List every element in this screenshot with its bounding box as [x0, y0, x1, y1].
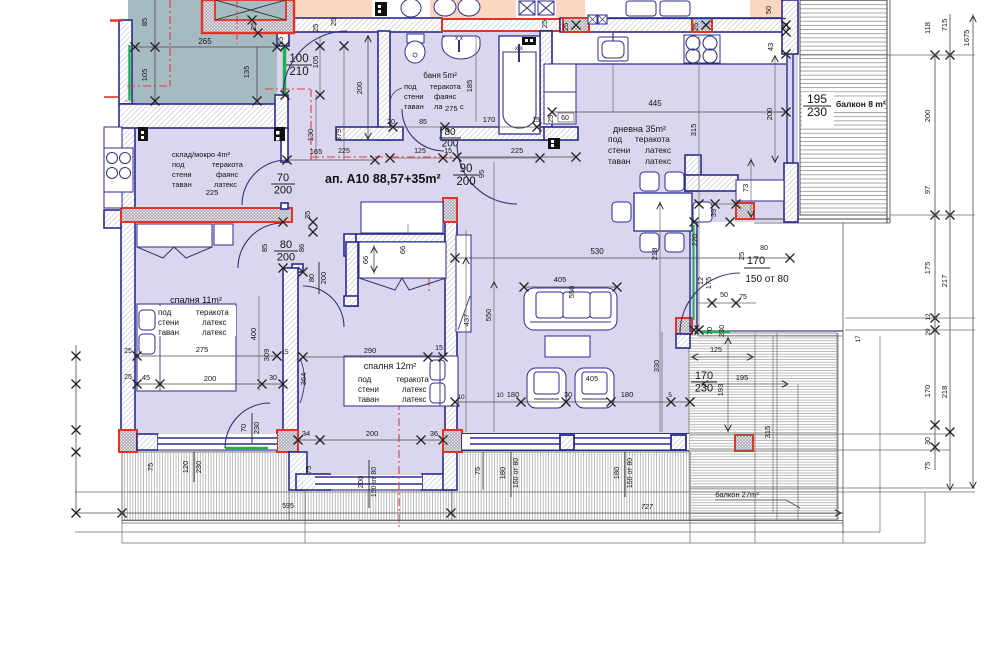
- kitchen socket: [548, 138, 560, 149]
- svg-text:80: 80: [307, 274, 316, 282]
- svg-text:теракота: теракота: [430, 82, 462, 91]
- svg-text:200: 200: [923, 110, 932, 123]
- svg-text:225: 225: [511, 146, 524, 155]
- svg-text:под: под: [158, 308, 172, 317]
- kitchen stub wall: [544, 127, 578, 140]
- svg-text:150 от 80: 150 от 80: [513, 458, 520, 488]
- svg-text:латекс: латекс: [202, 318, 227, 327]
- svg-text:спалня 11m²: спалня 11m²: [170, 295, 222, 305]
- bed bedroom11: [137, 304, 236, 391]
- entry door arc: [283, 31, 347, 95]
- coffee table: [545, 336, 590, 357]
- svg-text:25: 25: [546, 115, 555, 123]
- bedroom11 north wall red: [121, 208, 292, 222]
- svg-text:таван: таван: [158, 328, 179, 337]
- svg-text:60: 60: [561, 115, 569, 122]
- svg-text:105: 105: [311, 56, 320, 69]
- bathroom south wall: [336, 127, 403, 140]
- bay south wall pieces: [296, 474, 330, 490]
- svg-text:1675: 1675: [962, 30, 971, 47]
- svg-text:225: 225: [338, 148, 350, 155]
- svg-text:латекс: латекс: [645, 145, 672, 155]
- neighbor counter sinks: [626, 1, 656, 16]
- hall east glass green: [693, 225, 695, 320]
- svg-text:379: 379: [334, 129, 343, 142]
- svg-text:218: 218: [940, 386, 949, 399]
- svg-text:437: 437: [462, 314, 471, 327]
- svg-text:10: 10: [457, 394, 465, 401]
- storage door arc: [242, 160, 287, 205]
- neighbor sinks pair: [434, 0, 456, 16]
- terrace stub: [676, 334, 690, 348]
- svg-text:200: 200: [765, 108, 774, 121]
- neighbor washers: [519, 1, 535, 15]
- svg-text:таван: таван: [608, 156, 631, 166]
- svg-text:135: 135: [242, 66, 251, 79]
- svg-text:30: 30: [925, 437, 932, 445]
- svg-text:200: 200: [277, 251, 295, 263]
- svg-text:39: 39: [709, 209, 718, 217]
- svg-text:фаянс: фаянс: [216, 170, 239, 179]
- armchair 1: [527, 368, 566, 408]
- svg-text:180: 180: [498, 467, 507, 480]
- svg-text:230: 230: [194, 461, 203, 474]
- svg-text:100: 100: [289, 53, 308, 65]
- svg-text:170: 170: [923, 385, 932, 398]
- svg-text:35: 35: [303, 211, 312, 219]
- armchair 2: [575, 368, 614, 408]
- column red top1: [563, 18, 589, 32]
- bathroom door arc: [402, 109, 444, 151]
- svg-text:193: 193: [716, 384, 725, 397]
- east wall top: [782, 0, 798, 54]
- bottom wall stub: [137, 434, 158, 450]
- lobby bottom wall: [119, 104, 287, 128]
- vent shaft symbol: [588, 15, 597, 24]
- svg-text:таван: таван: [172, 180, 192, 189]
- svg-text:теракота: теракота: [396, 375, 429, 384]
- svg-text:85: 85: [260, 244, 269, 252]
- svg-text:75: 75: [739, 294, 747, 301]
- dining table: [634, 193, 692, 231]
- svg-text:66: 66: [398, 246, 407, 254]
- svg-text:715: 715: [940, 19, 949, 32]
- svg-text:90: 90: [460, 163, 473, 175]
- terrace door arc: [680, 273, 740, 333]
- svg-text:50: 50: [720, 292, 728, 299]
- svg-text:баня 5m²: баня 5m²: [423, 71, 457, 80]
- svg-text:200: 200: [274, 184, 292, 196]
- toilet bathroom: [407, 34, 424, 43]
- svg-text:под: под: [358, 375, 372, 384]
- balcony 8m2 decking: [800, 0, 887, 215]
- bed bedroom12: [344, 356, 458, 406]
- svg-text:195: 195: [807, 92, 827, 106]
- bedroom12 north wall piece: [344, 296, 358, 306]
- svg-text:85: 85: [140, 18, 149, 26]
- neighbor toilet: [401, 0, 421, 17]
- neighbor socket top: [375, 2, 387, 16]
- svg-text:130: 130: [306, 129, 315, 142]
- wall between closet and living: [445, 222, 457, 432]
- svg-text:86: 86: [297, 244, 306, 252]
- svg-text:x x: x x: [455, 36, 463, 42]
- svg-text:30: 30: [269, 375, 277, 382]
- svg-text:70: 70: [239, 424, 248, 432]
- svg-text:латекс: латекс: [402, 395, 427, 404]
- stair lobby fill: [128, 0, 277, 104]
- svg-text:17: 17: [855, 335, 862, 343]
- svg-text:15: 15: [444, 148, 452, 155]
- storage east wall: [281, 128, 288, 162]
- tv cabinet: [456, 235, 471, 332]
- svg-text:265: 265: [198, 37, 212, 46]
- svg-text:30: 30: [564, 390, 572, 399]
- hall-living door arc: [457, 144, 517, 204]
- svg-text:220: 220: [690, 234, 699, 247]
- svg-text:таван: таван: [404, 102, 424, 111]
- svg-text:400: 400: [249, 328, 258, 341]
- svg-text:180: 180: [612, 467, 621, 480]
- svg-text:230: 230: [252, 422, 261, 435]
- svg-text:34: 34: [302, 429, 310, 438]
- sofa: [524, 288, 617, 330]
- section line B: [265, 88, 311, 90]
- svg-text:550: 550: [567, 286, 576, 299]
- svg-text:10: 10: [496, 392, 504, 399]
- svg-text:180: 180: [621, 390, 634, 399]
- red stub top-left: [110, 19, 122, 21]
- column red hall: [443, 198, 457, 222]
- svg-text:218: 218: [650, 248, 659, 261]
- svg-text:95: 95: [477, 170, 486, 178]
- svg-text:стени: стени: [158, 318, 179, 327]
- bedroom12 door arc: [303, 286, 344, 327]
- entry west wall: [277, 0, 289, 46]
- bedroom11 entry door arc: [238, 223, 283, 268]
- bay window: [315, 476, 422, 478]
- svg-text:85: 85: [419, 119, 427, 126]
- svg-text:66: 66: [361, 256, 370, 264]
- svg-text:315: 315: [689, 124, 698, 137]
- svg-text:230: 230: [807, 105, 827, 119]
- svg-text:195: 195: [736, 373, 749, 382]
- svg-text:5: 5: [668, 392, 672, 399]
- svg-text:15: 15: [435, 345, 443, 352]
- svg-text:150 от 80: 150 от 80: [745, 274, 789, 285]
- svg-text:латекс: латекс: [402, 385, 427, 394]
- svg-text:под: под: [608, 134, 622, 144]
- svg-text:12: 12: [925, 313, 932, 321]
- svg-text:таван: таван: [358, 395, 379, 404]
- svg-text:275: 275: [196, 345, 209, 354]
- svg-text:36: 36: [430, 429, 438, 438]
- column red living sw: [443, 430, 462, 452]
- terrace door leaf green: [700, 331, 730, 334]
- svg-text:25: 25: [540, 20, 549, 28]
- covered terrace outline: [842, 223, 844, 534]
- svg-text:445: 445: [648, 99, 662, 108]
- svg-text:75: 75: [923, 462, 932, 470]
- svg-text:185: 185: [465, 80, 474, 93]
- svg-text:склад/мокро 4m²: склад/мокро 4m²: [172, 150, 231, 159]
- bay west wall: [289, 452, 307, 490]
- svg-text:43: 43: [766, 43, 775, 51]
- svg-text:под: под: [172, 160, 185, 169]
- section line C: [398, 402, 400, 527]
- neighbor apartment salmon strip: [287, 0, 784, 19]
- svg-text:25: 25: [561, 23, 570, 31]
- svg-text:25: 25: [737, 252, 746, 260]
- top wall band: [287, 18, 442, 32]
- svg-text:теракота: теракота: [635, 134, 670, 144]
- svg-text:стени: стени: [404, 92, 424, 101]
- svg-text:150 от 80: 150 от 80: [371, 467, 378, 497]
- svg-text:165: 165: [310, 147, 323, 156]
- wardrobe bedroom12: [359, 242, 446, 278]
- window post1: [560, 435, 574, 450]
- svg-text:25: 25: [124, 348, 132, 355]
- kitchen counter white: [552, 32, 786, 64]
- svg-text:73: 73: [741, 184, 750, 192]
- kitchen sink: [598, 37, 628, 61]
- cooktop: [684, 35, 720, 63]
- neighbor kitchen left: [104, 127, 122, 148]
- svg-text:120: 120: [181, 461, 190, 474]
- svg-text:80: 80: [280, 239, 292, 251]
- svg-text:170: 170: [747, 255, 765, 267]
- kitchen counter edge: [552, 63, 786, 65]
- svg-text:200: 200: [366, 429, 379, 438]
- svg-text:550: 550: [484, 309, 493, 322]
- svg-text:75: 75: [146, 463, 155, 471]
- svg-text:25: 25: [124, 374, 132, 381]
- svg-text:70: 70: [705, 327, 714, 335]
- bath socket: [522, 37, 536, 45]
- svg-text:175: 175: [923, 262, 932, 275]
- svg-text:29: 29: [925, 328, 932, 336]
- svg-text:ап. А10 88,57+35m²: ап. А10 88,57+35m²: [325, 172, 441, 186]
- bathroom sink: [442, 36, 480, 59]
- svg-text:ла: ла: [434, 102, 443, 111]
- svg-text:200: 200: [204, 374, 217, 383]
- svg-text:125: 125: [710, 347, 722, 354]
- east wall mid: [784, 163, 798, 222]
- svg-text:225: 225: [206, 188, 219, 197]
- balcony door east frame: [786, 54, 788, 163]
- bottom wall west: red column: [119, 430, 137, 452]
- svg-text:125: 125: [414, 148, 426, 155]
- window post2: [671, 435, 686, 450]
- svg-text:405: 405: [586, 374, 599, 383]
- hall closet: [361, 202, 443, 233]
- svg-text:80: 80: [760, 245, 768, 252]
- covered terrace white: [698, 223, 843, 331]
- section line A: [169, 0, 171, 86]
- svg-text:с: с: [460, 102, 464, 111]
- svg-text:балкон 8 m²: балкон 8 m²: [836, 99, 886, 109]
- bedroom11 balcony door leaf green: [225, 447, 268, 450]
- svg-text:спалня 12m²: спалня 12m²: [364, 361, 416, 371]
- bathroom east wall: [540, 31, 552, 140]
- bay east wall: [443, 452, 457, 490]
- svg-text:теракота: теракота: [196, 308, 229, 317]
- svg-text:фаянс: фаянс: [434, 92, 457, 101]
- svg-text:180: 180: [507, 390, 520, 399]
- apartment interior fill: [122, 20, 798, 490]
- svg-text:латекс: латекс: [645, 156, 672, 166]
- svg-text:118: 118: [923, 22, 932, 34]
- svg-text:75: 75: [304, 466, 313, 474]
- svg-text:15: 15: [532, 117, 540, 124]
- svg-text:217: 217: [940, 275, 949, 288]
- svg-text:15: 15: [281, 349, 289, 356]
- living windows: [470, 437, 560, 439]
- column red balcony corner: [736, 203, 754, 219]
- svg-text:25: 25: [691, 23, 700, 31]
- kitchen cabinets: [544, 64, 576, 92]
- svg-text:x x: x x: [515, 46, 523, 52]
- svg-text:150 от 80: 150 от 80: [627, 458, 634, 488]
- svg-text:727: 727: [641, 504, 654, 511]
- svg-text:315: 315: [763, 426, 772, 439]
- svg-text:25: 25: [311, 24, 320, 32]
- chairs: [640, 172, 659, 191]
- bathtub: [499, 36, 540, 134]
- window white bands: [158, 434, 277, 450]
- balcony8 border: [886, 0, 888, 223]
- closet north wall: [344, 234, 356, 256]
- svg-text:275: 275: [445, 104, 458, 113]
- left neighbor wall stub: [104, 210, 121, 228]
- svg-text:330: 330: [652, 360, 661, 373]
- svg-text:200: 200: [356, 476, 365, 489]
- hall cabinet: [736, 180, 784, 201]
- svg-text:170: 170: [695, 370, 713, 382]
- svg-text:стени: стени: [172, 170, 192, 179]
- elevator shaft: [202, 0, 294, 33]
- svg-text:стени: стени: [608, 145, 630, 155]
- svg-text:97: 97: [923, 186, 932, 194]
- svg-text:200: 200: [319, 272, 328, 285]
- entry door leaf green: [283, 46, 287, 95]
- svg-text:под: под: [404, 82, 417, 91]
- left outer wall: [119, 20, 132, 104]
- balcony 27m2 right part: [689, 333, 837, 520]
- svg-text:50: 50: [764, 6, 773, 14]
- svg-text:290: 290: [364, 346, 377, 355]
- storage sockets: [274, 127, 285, 141]
- svg-text:80: 80: [444, 127, 456, 138]
- column red top2: [692, 18, 712, 32]
- svg-text:595: 595: [282, 503, 294, 510]
- svg-text:364: 364: [299, 373, 308, 386]
- door leaf curve bedroom12: [300, 358, 305, 403]
- svg-text:210: 210: [289, 66, 308, 78]
- svg-text:309: 309: [262, 349, 271, 362]
- svg-text:стени: стени: [358, 385, 379, 394]
- hall east window: [689, 222, 691, 332]
- svg-text:75: 75: [473, 467, 482, 475]
- svg-text:латекс: латекс: [202, 328, 227, 337]
- svg-text:теракота: теракота: [212, 160, 244, 169]
- svg-text:70: 70: [277, 172, 289, 184]
- svg-text:дневна 35m²: дневна 35m²: [613, 124, 666, 134]
- svg-text:175: 175: [704, 277, 713, 290]
- terrace nw red column: [676, 318, 692, 334]
- bedroom11 balcony door arc: [225, 403, 270, 448]
- closet west wall: [346, 242, 358, 306]
- bedroom11 window: [158, 437, 277, 439]
- svg-text:530: 530: [590, 247, 604, 256]
- svg-text:200: 200: [456, 176, 475, 188]
- svg-text:230: 230: [717, 325, 726, 338]
- kitchen east L wall: [685, 155, 701, 191]
- svg-text:балкон 27m²: балкон 27m²: [715, 490, 759, 499]
- svg-text:200: 200: [355, 82, 364, 95]
- terrace mid red column: [735, 435, 753, 451]
- living south wall stub: [462, 434, 470, 450]
- lobby west window green: [128, 45, 131, 100]
- bathroom west wall: [378, 31, 390, 140]
- svg-text:170: 170: [483, 115, 496, 124]
- svg-text:45: 45: [142, 373, 150, 382]
- column red between bedrooms: [277, 430, 298, 452]
- wardrobe bedroom11: [137, 224, 212, 247]
- balcony 27m2 bottom strip: [122, 452, 289, 520]
- svg-text:105: 105: [140, 69, 149, 82]
- svg-text:405: 405: [554, 275, 567, 284]
- svg-text:25: 25: [329, 18, 338, 26]
- divider wall bedrooms: [283, 268, 298, 430]
